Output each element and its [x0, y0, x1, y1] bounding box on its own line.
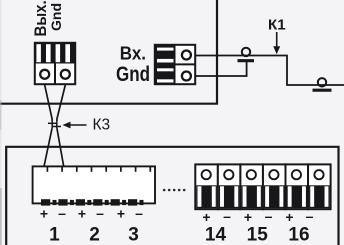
svg-text:+: +: [40, 206, 48, 222]
label K1 with arrow: [268, 17, 286, 55]
svg-text:+: +: [244, 209, 252, 225]
terminal block XT-in (Вх/Gnd), horizontal: [155, 45, 195, 84]
svg-text:Gnd: Gnd: [48, 3, 64, 31]
svg-text:15: 15: [247, 225, 269, 245]
svg-text:К3: К3: [93, 117, 111, 134]
svg-text:–: –: [223, 208, 231, 224]
svg-text:Gnd: Gnd: [116, 63, 150, 86]
svg-text:+: +: [202, 209, 210, 225]
svg-text:16: 16: [288, 225, 309, 245]
svg-text:–: –: [265, 208, 273, 224]
terminal strip 1..3.. (white strip with ticks and contacts): [33, 166, 155, 203]
svg-text:К1: К1: [268, 17, 286, 34]
device box B (bottom unit, cut at bottom): [6, 147, 338, 245]
terminal block XT-out (Вых/Gnd), vertical: [35, 43, 75, 84]
svg-text:14: 14: [205, 225, 227, 245]
jumper K1 (removable link symbol on Вх wire): [238, 48, 255, 61]
svg-text:–: –: [58, 205, 66, 221]
device box A (top unit, partially cut at top/left): [0, 0, 217, 104]
terminal row 14..16 (6 clamp cells): [195, 164, 330, 209]
polarity marks + - (channels 1..3): [40, 205, 143, 222]
jumper symbol on lower-right wire: [313, 78, 332, 90]
svg-text:1: 1: [49, 225, 60, 245]
label K3 with arrow: [63, 117, 111, 134]
svg-text:–: –: [135, 205, 143, 221]
strip contact dashes (bottom edge): [41, 199, 144, 205]
svg-text:+: +: [285, 209, 293, 225]
wire: Gnd line to jumper K1 base: [195, 62, 247, 77]
svg-text:Вх.: Вх.: [120, 43, 146, 64]
scan artifact: left edge shading: [0, 0, 1, 245]
svg-text:–: –: [96, 205, 104, 221]
connector K3 (detachable contact marks on leads): [48, 122, 61, 129]
polarity marks + - (channels 14..16): [202, 208, 313, 225]
svg-text:+: +: [78, 206, 86, 222]
wire: Вых+ lead down to strip: [44, 85, 52, 167]
svg-text:2: 2: [89, 225, 100, 245]
wire: Вых- lead down to strip: [57, 85, 65, 167]
ellipsis (continuation dots): [163, 189, 186, 192]
clamp slots (white stripes in cells): [198, 186, 329, 207]
svg-text:3: 3: [128, 225, 139, 245]
wire: Вх line to right, down and out right edge: [195, 56, 344, 86]
svg-text:+: +: [117, 206, 125, 222]
svg-text:–: –: [306, 208, 314, 224]
